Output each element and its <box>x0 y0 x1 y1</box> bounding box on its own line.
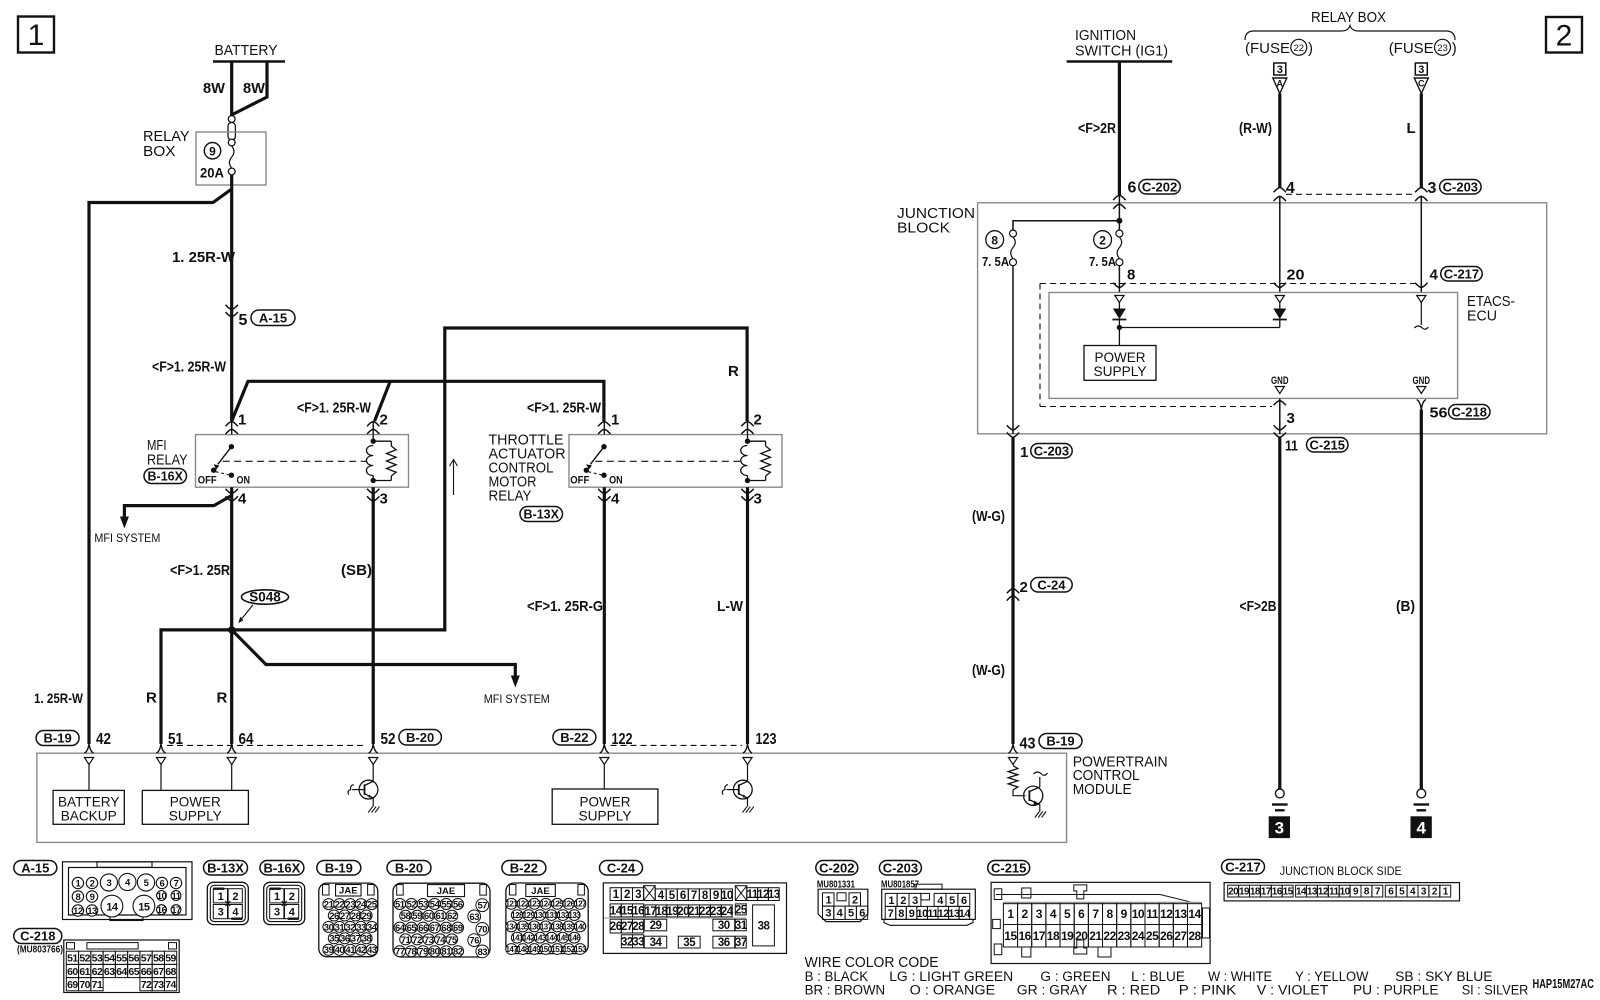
fuse 22 terminal 3/A <box>1273 63 1287 94</box>
svg-text:9: 9 <box>909 908 915 920</box>
svg-text:O : ORANGE: O : ORANGE <box>910 983 996 996</box>
svg-text:B-16X: B-16X <box>148 470 184 484</box>
svg-text:(B): (B) <box>1396 598 1415 615</box>
svg-text:GND: GND <box>1413 375 1431 387</box>
svg-text:8: 8 <box>991 233 998 247</box>
PCM pin 43 terminal, resistor and transistor Q3 <box>1008 758 1047 818</box>
svg-text:IGNITION: IGNITION <box>1075 27 1136 44</box>
wire <F>2R ignition feed <box>1078 62 1119 196</box>
wire MFI relay pin 3 down to PCM pin 52 (SB) <box>341 487 373 744</box>
svg-text:7: 7 <box>174 878 179 889</box>
svg-text:12: 12 <box>1318 887 1329 898</box>
svg-text:6: 6 <box>160 878 165 889</box>
PCM pin terminals <box>84 758 752 765</box>
connector B-20 pinout <box>387 860 490 957</box>
svg-text:7. 5A: 7. 5A <box>982 254 1010 269</box>
wire fuse23 to ETACS pin 4 C-217 <box>1415 196 1482 292</box>
svg-text:4: 4 <box>238 491 247 508</box>
svg-text:24: 24 <box>1132 929 1145 943</box>
svg-text:36: 36 <box>718 937 730 949</box>
svg-text:ECU: ECU <box>1467 308 1497 325</box>
svg-text:72: 72 <box>412 935 422 946</box>
svg-text:40: 40 <box>335 945 345 956</box>
wire feed rail to relay contacts <box>232 381 604 421</box>
svg-text:72: 72 <box>141 979 152 991</box>
svg-text:32: 32 <box>345 922 355 933</box>
svg-text:9: 9 <box>90 892 95 903</box>
svg-text:5: 5 <box>239 312 248 329</box>
svg-text:A-15: A-15 <box>21 860 49 875</box>
svg-text:5: 5 <box>949 895 955 907</box>
svg-text:(MU803766): (MU803766) <box>17 944 63 956</box>
battery backup block <box>53 765 124 825</box>
svg-text:8: 8 <box>1127 267 1135 284</box>
svg-text:28: 28 <box>1188 929 1201 943</box>
ignition switch IG1 <box>1067 27 1173 62</box>
reference arrow up <box>450 460 458 496</box>
svg-text:): ) <box>1308 40 1313 57</box>
svg-text:3: 3 <box>1036 907 1043 921</box>
svg-text:C-24: C-24 <box>607 860 636 875</box>
svg-text:71: 71 <box>401 935 412 946</box>
svg-text:3: 3 <box>274 907 280 919</box>
svg-text:SUPPLY: SUPPLY <box>169 807 223 823</box>
svg-text:25: 25 <box>367 900 378 911</box>
svg-text:SI : SILVER: SI : SILVER <box>1462 983 1529 996</box>
ETACS power supply block <box>1084 328 1156 381</box>
svg-text:L: L <box>1407 120 1416 137</box>
svg-text:13: 13 <box>1174 907 1187 921</box>
svg-text:133: 133 <box>568 911 581 920</box>
svg-text:6: 6 <box>961 895 967 907</box>
svg-text:10: 10 <box>157 891 167 902</box>
svg-text:5: 5 <box>848 908 854 920</box>
svg-text:4: 4 <box>1050 907 1057 921</box>
svg-text:34: 34 <box>367 922 378 933</box>
svg-text:MFI SYSTEM: MFI SYSTEM <box>484 692 550 706</box>
svg-text:22: 22 <box>335 900 345 911</box>
svg-text:JUNCTION BLOCK SIDE: JUNCTION BLOCK SIDE <box>1280 866 1402 878</box>
svg-text:65: 65 <box>407 923 418 934</box>
svg-text:6: 6 <box>1078 907 1085 921</box>
svg-text:15: 15 <box>1004 929 1017 943</box>
wire inside JB from C-202 <box>1116 195 1122 233</box>
svg-text:10: 10 <box>721 890 733 902</box>
ETACS pin 4 no-connect <box>1414 296 1428 330</box>
svg-text:17: 17 <box>1033 929 1046 943</box>
svg-text:26: 26 <box>1160 929 1173 943</box>
connector B-16X pinout <box>260 860 305 924</box>
connector marker 5 A-15 <box>226 305 296 329</box>
svg-text:54: 54 <box>104 953 115 965</box>
svg-text:(SB): (SB) <box>341 562 372 579</box>
svg-text:BATTERY: BATTERY <box>215 42 278 59</box>
connector marker 4 C-203 left <box>1274 180 1295 201</box>
wire JB to C-203 pin1 (W-G) <box>1007 266 1072 461</box>
ETACS pin 20 terminal <box>1275 296 1284 303</box>
svg-text:24: 24 <box>356 900 367 911</box>
diode D1 (pin 8) <box>1112 303 1126 331</box>
svg-text:): ) <box>1452 40 1457 57</box>
page marker 2 <box>1546 17 1582 53</box>
svg-text:MODULE: MODULE <box>1073 781 1132 798</box>
svg-text:21: 21 <box>324 900 335 911</box>
svg-text:3: 3 <box>1418 64 1424 76</box>
wire fuse2 to ETACS pin 8 <box>1113 266 1135 293</box>
svg-text:27: 27 <box>621 921 633 933</box>
connector B-13X pinout <box>204 860 249 924</box>
svg-text:31: 31 <box>735 920 748 932</box>
label 11 C-215 <box>1285 437 1348 454</box>
svg-text:38: 38 <box>362 934 372 945</box>
svg-text:3: 3 <box>1275 819 1284 838</box>
svg-text:10: 10 <box>1132 907 1145 921</box>
svg-text:C-218: C-218 <box>20 929 55 944</box>
svg-text:JAE: JAE <box>531 886 549 897</box>
svg-text:74: 74 <box>436 935 447 946</box>
connector B-19 pinout <box>317 860 378 956</box>
svg-text:SUPPLY: SUPPLY <box>1094 363 1148 379</box>
wire R loop: splice to throttle relay pin 2 <box>232 328 747 630</box>
svg-text:75: 75 <box>447 935 458 946</box>
connector C-215 pinout <box>988 860 1210 963</box>
svg-text:8W: 8W <box>203 80 226 97</box>
svg-text:11: 11 <box>1285 438 1298 455</box>
svg-text:27: 27 <box>1174 929 1187 943</box>
svg-text:54: 54 <box>430 899 441 910</box>
svg-text:68: 68 <box>441 923 451 934</box>
svg-text:60: 60 <box>67 966 78 978</box>
svg-text:2: 2 <box>90 878 95 889</box>
svg-text:53: 53 <box>418 899 428 910</box>
svg-text:24: 24 <box>721 906 734 918</box>
svg-text:59: 59 <box>412 911 422 922</box>
svg-text:RELAY: RELAY <box>489 488 532 505</box>
svg-text:PU : PURPLE: PU : PURPLE <box>1353 983 1439 996</box>
ETACS-ECU box <box>1049 293 1515 399</box>
svg-text:C-215: C-215 <box>1310 437 1345 452</box>
svg-text:3: 3 <box>825 908 831 920</box>
wire diagonal to MFI pin 2 <box>375 381 391 421</box>
svg-text:34: 34 <box>650 937 663 949</box>
svg-text:30: 30 <box>718 920 730 932</box>
svg-text:1: 1 <box>28 19 45 52</box>
svg-text:41: 41 <box>345 945 356 956</box>
svg-text:51: 51 <box>67 953 78 965</box>
wire L fuse23 down <box>1407 94 1422 189</box>
svg-text:C-203: C-203 <box>1443 179 1478 194</box>
svg-text:20: 20 <box>1228 887 1239 898</box>
connector C-202 pinout <box>816 860 868 921</box>
svg-text:17: 17 <box>1261 887 1272 898</box>
svg-text:27: 27 <box>340 911 350 922</box>
svg-text:C-202: C-202 <box>819 860 854 875</box>
svg-text:23: 23 <box>345 900 355 911</box>
svg-text:C-217: C-217 <box>1444 266 1479 281</box>
relay THROTTLE ACTUATOR CONTROL MOTOR RELAY B-13X <box>569 421 782 501</box>
svg-text:7: 7 <box>1092 907 1099 921</box>
wire fuse22 to ETACS pin 20 <box>1274 196 1305 292</box>
svg-text:9: 9 <box>713 890 719 902</box>
svg-text:57: 57 <box>141 953 152 965</box>
svg-text:3: 3 <box>107 878 112 889</box>
svg-text:C-203: C-203 <box>1034 443 1069 458</box>
svg-text:C-218: C-218 <box>1452 404 1487 419</box>
svg-text:38: 38 <box>758 921 771 933</box>
svg-text:20: 20 <box>1287 267 1305 284</box>
svg-text:82: 82 <box>453 947 463 958</box>
svg-text:B-13X: B-13X <box>207 860 244 875</box>
svg-text:53: 53 <box>92 953 103 965</box>
svg-text:3: 3 <box>754 491 762 508</box>
svg-text:7. 5A: 7. 5A <box>1089 254 1117 269</box>
power supply block (B-20) <box>142 765 248 825</box>
svg-text:1. 25R-W: 1. 25R-W <box>172 249 236 266</box>
svg-text:1: 1 <box>238 412 246 429</box>
ETACS GND pin 56 <box>1413 375 1431 394</box>
svg-text:69: 69 <box>453 923 463 934</box>
relay MFI RELAY B-16X <box>196 421 409 501</box>
svg-text:15: 15 <box>1283 887 1294 898</box>
fuse 2 7.5A <box>1089 230 1123 269</box>
svg-text:2: 2 <box>1099 233 1106 247</box>
svg-text:14: 14 <box>1188 907 1201 921</box>
svg-text:S048: S048 <box>249 590 281 605</box>
svg-text:43: 43 <box>367 945 377 956</box>
wire branch to PCM pin 42 <box>89 189 232 744</box>
svg-text:HAP15M27AC: HAP15M27AC <box>1533 976 1595 991</box>
splice S048 <box>228 590 289 634</box>
svg-text:146: 146 <box>568 934 581 943</box>
svg-text:74: 74 <box>165 979 176 991</box>
svg-text:73: 73 <box>424 935 434 946</box>
svg-text:68: 68 <box>165 966 176 978</box>
svg-text:V : VIOLET: V : VIOLET <box>1257 983 1329 996</box>
svg-text:3: 3 <box>380 491 388 508</box>
svg-text:<F>1. 25R: <F>1. 25R <box>170 562 230 579</box>
wire throttle relay pin 3 to PCM pin 123 L-W <box>717 487 748 744</box>
label 43 B-19 <box>1008 734 1082 754</box>
wire R to PCM pin 64 <box>230 630 233 744</box>
fusible link <box>228 116 235 146</box>
svg-text:65: 65 <box>128 966 139 978</box>
svg-text:66: 66 <box>141 966 152 978</box>
svg-text:2: 2 <box>900 895 906 907</box>
svg-text:<F>1. 25R-G: <F>1. 25R-G <box>527 598 603 615</box>
svg-text:12: 12 <box>73 906 83 917</box>
svg-text:2: 2 <box>1022 907 1029 921</box>
svg-text:3: 3 <box>912 895 918 907</box>
svg-text:C-203: C-203 <box>883 860 918 875</box>
connector B-22 pinout <box>502 860 588 954</box>
wire diode join <box>1119 327 1279 329</box>
svg-text:1: 1 <box>1020 444 1028 461</box>
svg-text:23: 23 <box>1118 929 1131 943</box>
svg-text:127: 127 <box>574 900 587 909</box>
relay box (page1) <box>143 128 266 185</box>
wire 1.25R-W battery feed down to MFI relay pin 1 <box>172 175 236 421</box>
wire ETACS pin 56 to ground 4 <box>1396 400 1490 790</box>
svg-text:83: 83 <box>478 947 488 958</box>
svg-text:B-19: B-19 <box>44 731 72 746</box>
fuse 8 7.5A <box>982 221 1119 269</box>
svg-text:BACKUP: BACKUP <box>61 807 117 823</box>
svg-text:64: 64 <box>395 923 406 934</box>
svg-text:9: 9 <box>1121 907 1128 921</box>
svg-text:10: 10 <box>1340 887 1351 898</box>
svg-text:<F>2B: <F>2B <box>1240 598 1277 615</box>
svg-text:58: 58 <box>153 953 164 965</box>
svg-text:55: 55 <box>116 953 127 965</box>
svg-text:RELAY BOX: RELAY BOX <box>1311 9 1386 26</box>
svg-text:14: 14 <box>1296 887 1307 898</box>
svg-text:52: 52 <box>381 731 396 748</box>
svg-text:52: 52 <box>79 953 90 965</box>
svg-text:4: 4 <box>1416 819 1426 838</box>
svg-text:12: 12 <box>1160 907 1173 921</box>
svg-text:22: 22 <box>1103 929 1116 943</box>
svg-text:2: 2 <box>1020 579 1028 596</box>
svg-text:23: 23 <box>1437 43 1448 54</box>
wire MFI relay pin 4 down to splice S048 <box>170 487 232 630</box>
ETACS dashed boundary <box>1040 284 1417 407</box>
svg-text:4: 4 <box>611 491 620 508</box>
svg-text:6: 6 <box>680 890 686 902</box>
svg-text:60: 60 <box>424 911 434 922</box>
svg-text:6: 6 <box>859 908 865 920</box>
svg-text:16: 16 <box>1018 929 1031 943</box>
svg-text:C: C <box>1418 79 1425 89</box>
fuse 23 <box>1389 39 1457 57</box>
connector A-15 pinout <box>14 860 192 920</box>
connector C-203 pinout <box>879 860 975 925</box>
svg-text:13: 13 <box>87 906 97 917</box>
powertrain control module box <box>37 753 1168 842</box>
svg-text:P : PINK: P : PINK <box>1179 983 1237 996</box>
wire (W-G) down to PCM pin 43 <box>972 437 1013 744</box>
wire throttle relay pin 4 to PCM pin 122 <F>1.25R-G <box>527 487 604 744</box>
svg-text:3: 3 <box>1287 410 1295 427</box>
wire color code legend <box>805 954 1595 999</box>
svg-text:79: 79 <box>418 947 428 958</box>
svg-text:R : RED: R : RED <box>1107 983 1160 996</box>
svg-text:19: 19 <box>1061 929 1074 943</box>
svg-text:30: 30 <box>324 922 334 933</box>
svg-text:70: 70 <box>478 924 488 935</box>
svg-text:R: R <box>217 690 228 707</box>
svg-text:81: 81 <box>441 947 452 958</box>
svg-text:1: 1 <box>825 894 831 906</box>
connector C-218 pinout <box>14 929 179 993</box>
svg-text:22: 22 <box>1294 43 1305 54</box>
svg-text:(R-W): (R-W) <box>1239 120 1272 137</box>
svg-text:2: 2 <box>289 891 295 903</box>
svg-text:67: 67 <box>153 966 164 978</box>
svg-text:2: 2 <box>380 412 388 429</box>
svg-text:70: 70 <box>79 979 90 991</box>
transistor Q (pin 52) <box>348 765 379 813</box>
svg-text:A: A <box>1277 79 1284 89</box>
svg-text:L-W: L-W <box>717 598 744 615</box>
connector marker 6 C-202 <box>1113 179 1180 208</box>
svg-text:3: 3 <box>1428 180 1437 197</box>
svg-text:19: 19 <box>1239 887 1250 898</box>
svg-text:(W-G): (W-G) <box>972 662 1005 679</box>
wire ETACS pin3 to JB edge <box>1274 398 1295 437</box>
svg-text:GR : GRAY: GR : GRAY <box>1017 983 1088 996</box>
svg-text:59: 59 <box>165 953 176 965</box>
svg-text:31: 31 <box>335 922 346 933</box>
svg-text:RELAY: RELAY <box>147 452 188 469</box>
ETACS pin 8 terminal <box>1115 296 1124 303</box>
svg-text:71: 71 <box>92 979 103 991</box>
svg-text:B-22: B-22 <box>560 730 588 745</box>
svg-text:66: 66 <box>418 923 428 934</box>
svg-text:11: 11 <box>1329 887 1340 898</box>
svg-text:16: 16 <box>1272 887 1283 898</box>
svg-text:B-13X: B-13X <box>524 508 560 522</box>
svg-text:18: 18 <box>1047 929 1060 943</box>
svg-text:3: 3 <box>218 907 224 919</box>
svg-text:21: 21 <box>1089 929 1102 943</box>
svg-text:14: 14 <box>959 908 972 920</box>
svg-text:56: 56 <box>128 953 139 965</box>
svg-text:5: 5 <box>1064 907 1071 921</box>
svg-text:<F>1. 25R-W: <F>1. 25R-W <box>297 400 372 417</box>
svg-text:56: 56 <box>1430 405 1448 422</box>
svg-text:6: 6 <box>1128 180 1137 197</box>
svg-text:2: 2 <box>232 891 238 903</box>
junction block box <box>897 203 1547 434</box>
svg-text:8: 8 <box>1107 907 1114 921</box>
svg-text:35: 35 <box>329 934 340 945</box>
svg-text:64: 64 <box>116 966 127 978</box>
dashed connector line C-203 <box>1286 193 1415 195</box>
wire splice left branch to PCM pin 51 <box>161 630 232 744</box>
svg-text:2: 2 <box>754 412 762 429</box>
wire (R-W) fuse22 down <box>1239 94 1280 189</box>
svg-text:B-22: B-22 <box>510 860 538 875</box>
svg-text:(W-G): (W-G) <box>972 508 1005 525</box>
svg-text:BOX: BOX <box>143 143 176 160</box>
svg-text:2: 2 <box>852 894 858 906</box>
wire battery left 8W <box>203 62 232 116</box>
svg-text:<F>2R: <F>2R <box>1078 120 1116 137</box>
svg-text:<F>1. 25R-W: <F>1. 25R-W <box>527 400 602 417</box>
svg-text:36: 36 <box>340 934 350 945</box>
svg-text:16: 16 <box>632 906 644 918</box>
svg-text:25: 25 <box>1146 929 1159 943</box>
svg-text:OFF: OFF <box>198 475 217 487</box>
svg-text:123: 123 <box>756 731 777 748</box>
svg-text:C-217: C-217 <box>1225 859 1260 874</box>
svg-text:58: 58 <box>401 911 411 922</box>
svg-text:20: 20 <box>1075 929 1088 943</box>
svg-text:13: 13 <box>768 889 780 901</box>
svg-text:29: 29 <box>362 911 372 922</box>
connector B-19 pin 42 <box>36 731 111 754</box>
svg-text:R: R <box>728 363 739 380</box>
svg-text:<F>1. 25R-W: <F>1. 25R-W <box>152 359 227 376</box>
svg-text:1: 1 <box>888 895 894 907</box>
svg-text:1: 1 <box>218 891 224 903</box>
svg-text:1. 25R-W: 1. 25R-W <box>34 690 84 706</box>
arrow to MFI SYSTEM (from relay pin 4) <box>94 496 231 546</box>
svg-text:18: 18 <box>1250 887 1261 898</box>
svg-text:9: 9 <box>209 144 216 158</box>
svg-text:MFI SYSTEM: MFI SYSTEM <box>94 531 160 545</box>
svg-text:52: 52 <box>407 899 417 910</box>
